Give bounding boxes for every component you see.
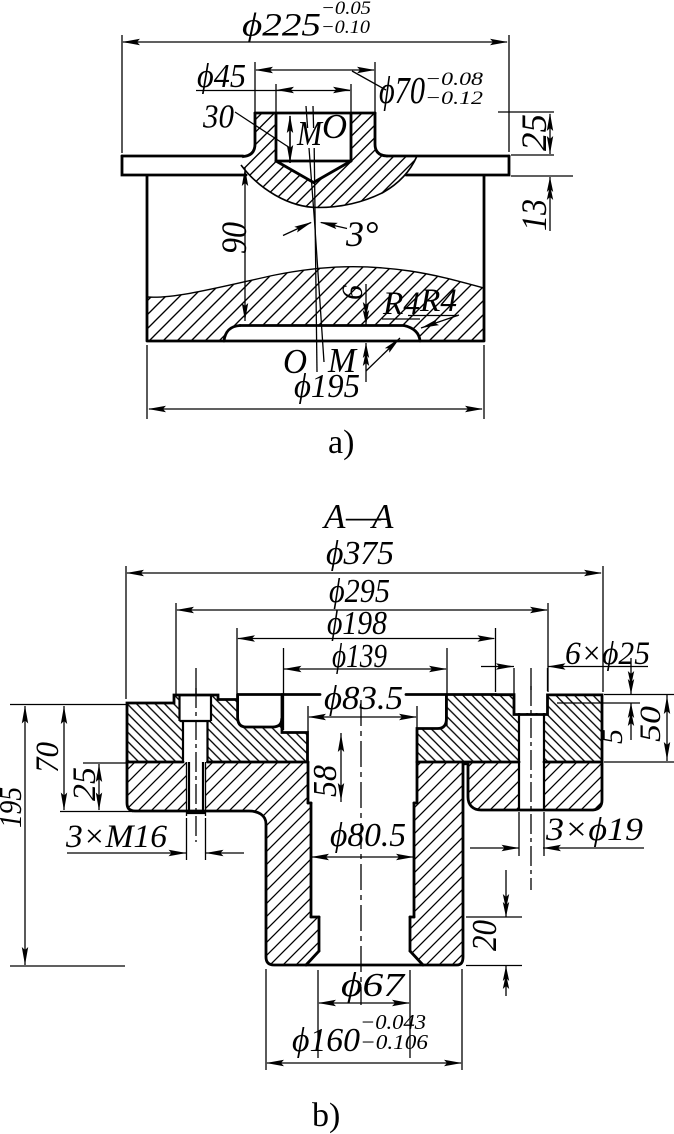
svg-text:R4: R4 <box>382 286 420 322</box>
svg-text:90: 90 <box>214 222 254 254</box>
svg-text:20: 20 <box>465 920 504 951</box>
svg-text:6×ϕ25: 6×ϕ25 <box>565 636 650 672</box>
svg-text:ϕ375: ϕ375 <box>326 535 394 572</box>
svg-text:M: M <box>296 114 323 153</box>
svg-text:b): b) <box>312 1097 340 1134</box>
svg-text:ϕ195: ϕ195 <box>294 368 360 405</box>
svg-text:ϕ198: ϕ198 <box>327 605 387 642</box>
svg-text:O: O <box>322 107 347 146</box>
svg-text:70: 70 <box>30 742 66 773</box>
svg-text:R4: R4 <box>419 283 457 319</box>
svg-text:25: 25 <box>67 767 103 801</box>
svg-text:−0.12: −0.12 <box>425 88 484 109</box>
svg-text:13: 13 <box>514 199 554 231</box>
svg-text:5: 5 <box>596 729 629 744</box>
svg-text:ϕ67: ϕ67 <box>341 967 406 1004</box>
svg-text:ϕ83.5: ϕ83.5 <box>324 680 403 717</box>
svg-text:A: A <box>370 497 394 536</box>
svg-text:ϕ225: ϕ225 <box>242 8 321 44</box>
svg-text:ϕ70: ϕ70 <box>379 70 425 112</box>
svg-text:ϕ139: ϕ139 <box>332 638 387 675</box>
svg-text:−0.08: −0.08 <box>425 69 484 90</box>
svg-text:3°: 3° <box>345 214 378 254</box>
svg-text:A: A <box>322 497 346 536</box>
svg-text:3×M16: 3×M16 <box>65 819 168 855</box>
svg-text:a): a) <box>328 424 354 461</box>
svg-text:−0.106: −0.106 <box>360 1030 429 1054</box>
svg-text:58: 58 <box>307 765 344 797</box>
svg-text:25: 25 <box>514 114 554 151</box>
svg-text:ϕ80.5: ϕ80.5 <box>330 817 406 854</box>
svg-text:50: 50 <box>634 706 667 742</box>
svg-text:3×ϕ19: 3×ϕ19 <box>545 812 643 848</box>
svg-text:30: 30 <box>202 99 234 136</box>
svg-text:ϕ160: ϕ160 <box>292 1022 360 1059</box>
svg-text:−0.10: −0.10 <box>321 17 371 38</box>
svg-text:195: 195 <box>0 787 28 828</box>
svg-text:ϕ45: ϕ45 <box>197 58 246 95</box>
svg-text:6: 6 <box>336 285 369 300</box>
